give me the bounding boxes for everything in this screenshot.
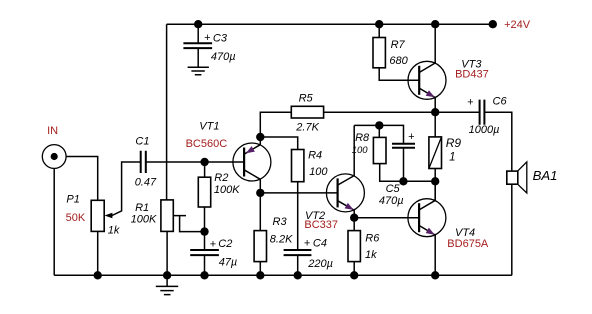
wire R3 bottom (259, 262, 261, 276)
wire R8 top stub (378, 125, 380, 137)
transistor VT1 (233, 143, 271, 181)
node VT2 emitter (350, 214, 358, 222)
node R1 ground (163, 271, 171, 279)
wire R6 bottom (353, 262, 355, 276)
svg-text:100K: 100K (214, 184, 240, 196)
svg-text:R4: R4 (308, 150, 322, 162)
wire output net R5 to C6 (324, 111, 480, 113)
wire R7 bottom to VT3 base (379, 68, 419, 81)
svg-text:680: 680 (389, 55, 408, 67)
svg-text:C6: C6 (493, 96, 508, 108)
svg-text:BD675A: BD675A (447, 238, 489, 250)
node C5 bottom (399, 177, 407, 185)
wire R2 top stub (204, 162, 206, 177)
node VT3 collector on rail (431, 20, 439, 28)
resistor R2 (198, 177, 210, 207)
svg-text:+: + (467, 97, 474, 109)
transistor VT3 (408, 61, 446, 99)
node +24V terminal (489, 20, 497, 28)
svg-text:C2: C2 (218, 238, 232, 250)
node C2 ground (200, 271, 208, 279)
svg-text:BC560C: BC560C (186, 138, 228, 150)
node R9 bottom (431, 177, 439, 185)
svg-text:+: + (304, 237, 311, 249)
node R3 ground (256, 271, 264, 279)
capacitor C4 (284, 250, 312, 255)
wire emitter node to R4 (260, 137, 297, 150)
ground main (156, 275, 178, 294)
wire C4 bottom (297, 255, 299, 275)
wire P1 wiper to C1 (112, 162, 141, 216)
wire R6 top stub (353, 218, 355, 231)
svg-text:220µ: 220µ (307, 258, 333, 270)
resistor R3 (254, 231, 266, 262)
wire IN to P1 top (66, 157, 98, 201)
node C3 top (194, 20, 202, 28)
transistor VT2 (326, 174, 364, 212)
svg-text:1k: 1k (108, 224, 120, 236)
wire C2 bottom (204, 255, 206, 275)
resistor R1 (161, 200, 173, 232)
wire C5 bottom stub (403, 148, 405, 182)
svg-text:47µ: 47µ (219, 256, 238, 268)
svg-text:BC337: BC337 (304, 219, 338, 231)
connector IN (42, 145, 66, 169)
wire R1 bottom (166, 231, 168, 275)
resistor R9 (429, 137, 442, 169)
node VT1 emitter (256, 133, 264, 141)
svg-text:100: 100 (352, 145, 369, 156)
svg-text:1000µ: 1000µ (469, 124, 500, 136)
wire collector to VT2 base (260, 192, 337, 194)
svg-text:C1: C1 (135, 136, 149, 148)
capacitor C1 (141, 151, 146, 173)
wire VT2 collector to C5 top (354, 125, 403, 143)
node VT4 emitter ground (431, 271, 439, 279)
node output VT3 emitter (431, 108, 439, 116)
svg-text:R6: R6 (365, 232, 380, 244)
wire C3 top stub (197, 24, 199, 43)
wire C1 to VT1 base (146, 161, 205, 163)
capacitor C3 (183, 43, 212, 48)
svg-text:IN: IN (47, 125, 58, 137)
wire left drop from rail to R1 (166, 24, 168, 200)
wire R5 left to VT1 emitter node (260, 112, 291, 137)
wire C2 top stub (204, 232, 206, 250)
wire P1 bottom (97, 231, 99, 275)
wire ground bottom rail (54, 274, 512, 276)
capacitor C6 (480, 100, 485, 125)
svg-text:BD437: BD437 (455, 69, 489, 81)
transistor VT4 (408, 199, 446, 237)
node VT1 collector (256, 189, 264, 197)
node C4 ground (294, 271, 302, 279)
svg-text:C4: C4 (313, 238, 327, 250)
wire VT1 base wire (205, 161, 245, 163)
svg-text:C3: C3 (213, 32, 228, 44)
svg-text:2.7K: 2.7K (295, 122, 319, 134)
wire IN down to bottom rail (53, 168, 55, 275)
wire speaker to bottom rail (511, 184, 513, 275)
wire VT4 collector stub (434, 181, 436, 200)
wire R4 to C4 (297, 182, 299, 250)
svg-text:R5: R5 (299, 92, 314, 104)
wire C6 to speaker (484, 112, 511, 171)
svg-text:R1: R1 (135, 202, 149, 214)
node VT1 base (200, 158, 208, 166)
wire R7 top stub (378, 24, 380, 37)
capacitor C5 (392, 144, 415, 148)
svg-text:+24V: +24V (504, 19, 531, 31)
wire R8 bottom to C5 node (380, 164, 404, 182)
wire C3 to ground (197, 48, 199, 67)
node P1 ground (94, 271, 102, 279)
wire +24V top rail (167, 23, 493, 25)
node R6 ground (350, 271, 358, 279)
svg-text:R7: R7 (391, 39, 406, 51)
svg-text:BA1: BA1 (533, 168, 558, 183)
speaker BA1 (507, 171, 518, 184)
potentiometer P1 (91, 200, 104, 231)
node R8 top (375, 121, 383, 129)
svg-text:VT1: VT1 (199, 120, 219, 132)
node R7 top (375, 20, 383, 28)
resistor R5 (291, 106, 323, 118)
svg-text:470µ: 470µ (379, 195, 404, 207)
resistor R8 (373, 137, 386, 163)
wire C5 node to R9 node (403, 180, 435, 182)
wire R9 top stub (434, 112, 436, 137)
svg-text:R3: R3 (273, 216, 288, 228)
wire R2 bottom (204, 207, 206, 232)
svg-text:470µ: 470µ (211, 51, 236, 63)
svg-text:+: + (204, 32, 211, 44)
wire VT2 emitter to VT4 base (354, 217, 419, 219)
svg-text:0.47: 0.47 (135, 176, 157, 188)
svg-text:8.2K: 8.2K (270, 234, 293, 246)
capacitor C2 (190, 250, 219, 255)
ground under C3 (188, 67, 209, 75)
svg-text:100K: 100K (131, 214, 157, 226)
svg-text:R2: R2 (214, 172, 228, 184)
resistor R7 (373, 38, 385, 68)
svg-text:C5: C5 (386, 183, 401, 195)
wire R1 tap (173, 216, 204, 232)
arrow P1 wiper (104, 213, 112, 219)
resistor R4 (292, 150, 304, 182)
svg-text:1: 1 (449, 151, 455, 163)
node bias R1-tap R2 C2 (200, 227, 208, 235)
wire R9 bottom stub (434, 169, 436, 182)
svg-text:+: + (210, 238, 217, 250)
svg-text:R9: R9 (446, 136, 462, 150)
svg-text:R8: R8 (355, 132, 370, 144)
svg-text:1k: 1k (365, 249, 377, 261)
wire R3 top stub (259, 193, 261, 231)
svg-text:50K: 50K (66, 212, 86, 224)
svg-text:+: + (408, 131, 415, 143)
resistor R6 (348, 231, 360, 262)
svg-text:100: 100 (309, 166, 328, 178)
svg-text:P1: P1 (66, 193, 79, 205)
